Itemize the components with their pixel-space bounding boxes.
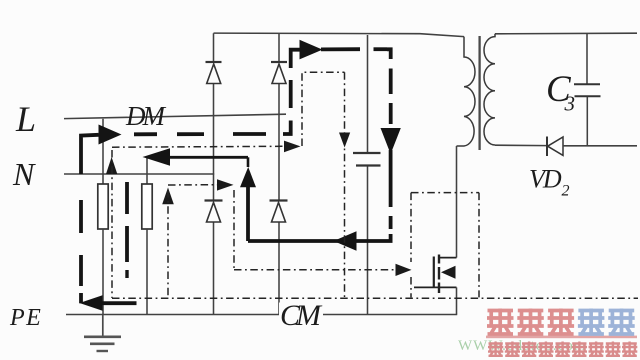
diode D4 [270,201,288,223]
svg-text:VD: VD [529,165,562,194]
DM dash g [389,216,393,229]
svg-text:PE: PE [9,305,42,331]
CM path horizontal at N [112,145,284,148]
svg-text:CM: CM [280,299,323,332]
CM arrow down mid [339,133,350,148]
CM path vertical junction [233,190,235,270]
wire L line [64,114,286,118]
wire R2 bottom lead [146,229,148,315]
wire capacitor C2 bottom lead [367,167,369,315]
watermark slogan text [488,342,637,357]
watermark char 训 [608,309,635,336]
DM arrow up [240,167,256,187]
DM dashed segment i [125,226,129,262]
CM arrow right at gate [396,264,412,276]
transformer T1 secondary winding [484,34,495,145]
capacitor C2 [353,153,381,166]
wire secondary top rail [495,32,637,35]
DM dashed segment j [125,270,128,278]
DM dashed segment b [177,132,204,136]
diode D3 [205,201,223,223]
DM corner up at junction [246,186,250,241]
CM arrow up at R2 [162,188,174,205]
DM path corner at L [81,135,99,174]
CM path vertical R2 [167,190,169,298]
DM corner to left run [248,234,391,241]
CM path vertical mid [344,72,346,298]
wire C3 top lead [586,33,588,83]
watermark char 培 [578,309,605,336]
wire top rail [214,33,465,37]
DM arrow left at PE [80,295,103,311]
wire PE line [66,314,457,316]
label CM [279,303,323,327]
DM top line [321,47,360,51]
DM line left to R2 [169,156,248,159]
wire primary bottom to drain [456,146,458,258]
transformer T1 primary winding [457,37,476,146]
wire secondary bottom lead [495,144,547,146]
DM corner at PE [79,293,83,303]
CM ground return line [112,297,638,299]
resistor R2 [142,184,152,229]
wire VD2 to output [563,145,637,147]
CM path horizontal below N [168,184,218,186]
CM arrow right small [217,179,234,190]
DM stub above arrow [247,157,250,167]
watermark underline [486,336,637,339]
CM arrow up at N [106,157,117,174]
wire bridge right leg [278,34,280,315]
DM arrow right top [300,40,323,60]
DM arrow left mid [334,231,357,250]
resistor R2 top lead [146,156,148,184]
wire N line [64,173,214,175]
DM dashed segment k [79,200,83,233]
DM dashed segment a [134,132,157,136]
CM box right [478,193,480,298]
CM path corner up [302,72,345,146]
CM arrow right at N [284,141,301,153]
svg-text:3: 3 [564,92,576,116]
DM arrow right at L [99,125,122,145]
svg-text:DM: DM [125,101,166,131]
transformer core [478,36,480,150]
DM arrow left at R2 [143,148,171,165]
DM dashed segment l [79,255,83,286]
DM dashed segment h [125,182,129,214]
wire R1 bottom lead [102,229,104,315]
ground [84,315,121,352]
DM corner top left [291,50,300,68]
CM path horizontal to gate [234,269,396,271]
diode D1 [206,62,222,84]
CM path vertical left [111,150,113,298]
svg-text:L: L [15,99,36,139]
wire bridge left leg [213,33,215,314]
CM box top [411,192,479,194]
DM dashed segment f [389,103,393,124]
watermark char 迪 [517,309,544,336]
DM dashed segment d [289,80,293,108]
DM dashed segment c [233,132,266,136]
DM line mid down [389,150,393,207]
DM dashed corner lower [283,121,291,135]
wire Q1 source to PE [456,287,458,314]
diode VD2 [547,137,563,157]
capacitor C3 [574,84,601,96]
resistor R1 [98,184,108,229]
DM dashed segment e [389,69,393,95]
resistor R1 top lead [102,119,104,184]
DM line at PE [101,301,137,305]
watermark char 拓 [548,309,575,336]
DM corner top right [387,49,391,59]
transistor Q1 [414,255,457,294]
watermark char 易 [487,309,514,336]
wire C3 bottom lead [586,97,588,146]
CM box left [410,193,412,298]
wire capacitor C2 top lead [367,35,369,152]
diode D2 [271,62,287,84]
DM arrow down [381,128,401,154]
svg-text:2: 2 [562,183,570,200]
svg-text:N: N [12,156,36,192]
DM top dash [374,47,388,51]
